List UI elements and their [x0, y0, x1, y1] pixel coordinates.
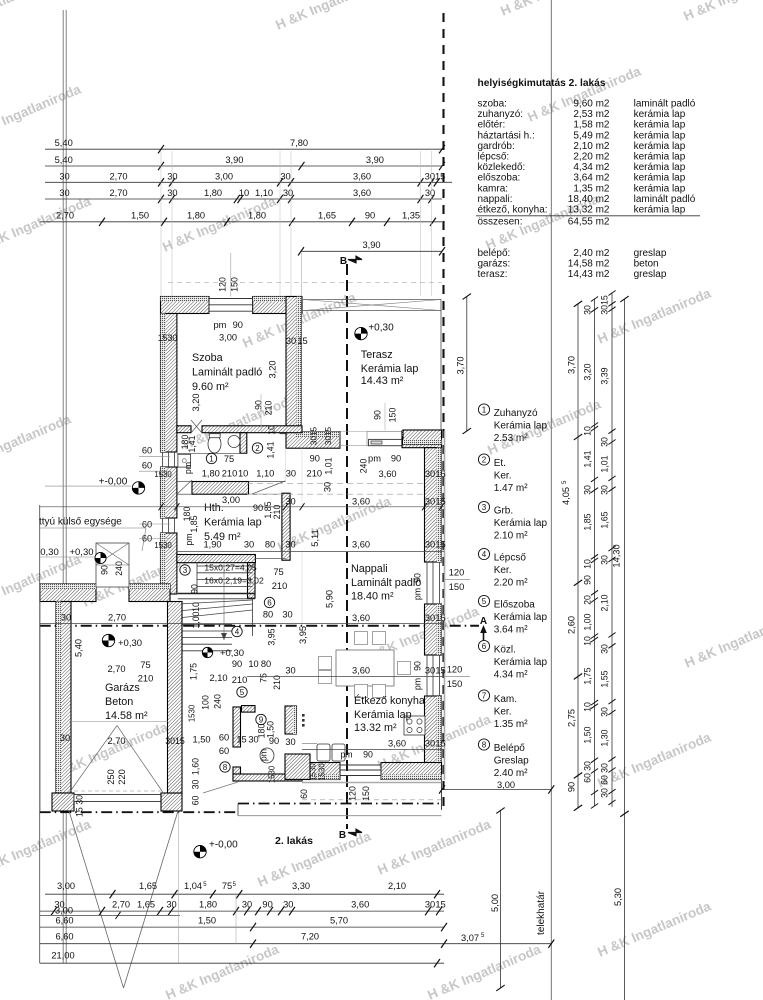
- svg-text:1,04: 1,04: [184, 881, 202, 891]
- svg-text:3,07: 3,07: [461, 933, 479, 943]
- svg-text:0,30: 0,30: [40, 547, 59, 558]
- svg-text:13.32 m²: 13.32 m²: [354, 722, 397, 734]
- section marker A arrow: [483, 628, 485, 641]
- svg-text:1,00: 1,00: [583, 613, 593, 630]
- bottom dash-dot house line: [40, 811, 238, 813]
- svg-text:1: 1: [482, 405, 487, 414]
- wall segment right of sliding door: [402, 431, 442, 448]
- garden wall e: [129, 584, 170, 602]
- svg-text:15: 15: [236, 735, 246, 745]
- right dim chain x612: [611, 293, 613, 807]
- svg-text:64,55 m2: 64,55 m2: [568, 217, 610, 228]
- svg-text:150: 150: [449, 582, 465, 592]
- garage east wall: [168, 602, 183, 794]
- dashed ceiling beam lines: [247, 482, 424, 484]
- svg-text:30: 30: [425, 900, 435, 910]
- svg-text:garázs:: garázs:: [478, 259, 511, 270]
- belepo door arc: [260, 748, 274, 763]
- svg-text:90: 90: [233, 320, 243, 330]
- svg-text:2.20 m²: 2.20 m²: [494, 577, 529, 588]
- svg-text:kerámia lap: kerámia lap: [634, 162, 686, 173]
- svg-text:30: 30: [285, 666, 295, 676]
- svg-text:210: 210: [272, 675, 282, 690]
- svg-text:telekhatár: telekhatár: [536, 890, 547, 935]
- konyha west wall upper: [285, 706, 296, 734]
- svg-text:30: 30: [283, 900, 293, 910]
- svg-text:belépő:: belépő:: [478, 248, 511, 259]
- staircase treads upper: [197, 565, 253, 567]
- svg-text:1,41: 1,41: [266, 441, 276, 458]
- svg-text:30: 30: [286, 469, 296, 479]
- svg-text:kerámia lap: kerámia lap: [634, 205, 686, 216]
- svg-text:1: 1: [209, 454, 214, 463]
- svg-text:pm: pm: [184, 533, 194, 545]
- svg-text:15: 15: [435, 469, 445, 479]
- svg-text:2,60: 2,60: [567, 616, 577, 634]
- svg-text:60: 60: [219, 746, 229, 756]
- svg-text:3,60: 3,60: [388, 739, 406, 749]
- svg-text:2,70: 2,70: [109, 188, 127, 198]
- svg-text:háztartási h.:: háztartási h.:: [478, 130, 535, 141]
- svg-text:4,05: 4,05: [561, 487, 571, 505]
- svg-text:kerámia lap: kerámia lap: [634, 173, 686, 184]
- telekhatar label: [536, 890, 547, 935]
- svg-text:6: 6: [267, 598, 272, 607]
- svg-text:Terasz: Terasz: [361, 349, 393, 361]
- svg-text:2.53 m²: 2.53 m²: [494, 433, 529, 444]
- top wall segment B: [253, 297, 302, 314]
- svg-text:1,75: 1,75: [189, 663, 199, 680]
- svg-text:Közl.: Közl.: [494, 645, 516, 656]
- svg-text:pm: pm: [413, 678, 423, 690]
- svg-text:3,60: 3,60: [378, 469, 396, 479]
- svg-text:30: 30: [600, 437, 610, 447]
- svg-text:Garázs: Garázs: [105, 682, 140, 694]
- svg-text:nappali:: nappali:: [478, 194, 513, 205]
- svg-text:kerámia lap: kerámia lap: [634, 120, 686, 131]
- svg-text:210: 210: [307, 469, 323, 479]
- svg-text:30: 30: [248, 735, 258, 745]
- svg-text:2.40 m²: 2.40 m²: [494, 768, 529, 779]
- svg-text:90: 90: [583, 575, 593, 585]
- svg-text:1,65: 1,65: [318, 211, 336, 221]
- svg-text:2,20 m2: 2,20 m2: [573, 152, 610, 163]
- svg-text:1530: 1530: [318, 763, 327, 781]
- svg-text:15: 15: [297, 336, 307, 346]
- svg-text:Kerámia lap: Kerámia lap: [354, 709, 412, 721]
- svg-text:60: 60: [142, 520, 152, 530]
- marker +0,30 left: [95, 552, 106, 563]
- svg-text:30: 30: [286, 336, 296, 346]
- terasz right edge: [440, 300, 442, 431]
- svg-text:240: 240: [359, 459, 369, 474]
- svg-text:Greslap: Greslap: [494, 755, 529, 766]
- svg-text:3,39: 3,39: [600, 367, 610, 384]
- svg-text:3,90: 3,90: [225, 155, 243, 165]
- svg-text:15: 15: [435, 613, 445, 623]
- svg-text:10: 10: [267, 425, 277, 435]
- svg-text:1,50: 1,50: [131, 211, 149, 221]
- svg-text:3,30: 3,30: [292, 881, 310, 891]
- svg-text:5,30: 5,30: [613, 888, 623, 906]
- svg-text:5,11: 5,11: [310, 529, 320, 546]
- svg-text:2,40 m2: 2,40 m2: [573, 248, 610, 259]
- svg-text:150: 150: [361, 786, 371, 801]
- svg-text:Laminált padló: Laminált padló: [192, 367, 262, 379]
- svg-text:1,50: 1,50: [583, 726, 593, 743]
- svg-text:2,70: 2,70: [107, 664, 125, 674]
- svg-text:1,41: 1,41: [187, 435, 197, 452]
- marker +0,30 stair: [202, 647, 212, 657]
- left wall middle: [161, 467, 177, 518]
- svg-text:80: 80: [263, 610, 273, 620]
- svg-text:60: 60: [600, 775, 610, 785]
- svg-text:Beton: Beton: [105, 696, 133, 708]
- belepo north stub: [242, 706, 256, 713]
- svg-text:3,00: 3,00: [55, 906, 73, 916]
- hth north wall: [192, 482, 249, 495]
- row 749 konyha: [302, 749, 444, 751]
- svg-text:terasz:: terasz:: [478, 269, 508, 280]
- svg-text:3015: 3015: [310, 426, 319, 445]
- svg-text:210: 210: [264, 401, 274, 416]
- svg-text:210: 210: [232, 675, 248, 685]
- svg-text:3,95: 3,95: [298, 626, 308, 644]
- stair east wall: [248, 563, 256, 599]
- svg-text:1,90: 1,90: [203, 540, 221, 550]
- svg-text:közlekedő:: közlekedő:: [478, 162, 526, 173]
- svg-text:2: 2: [482, 455, 487, 464]
- svg-text:1,55: 1,55: [600, 670, 610, 687]
- svg-text:Lépcső: Lépcső: [494, 553, 527, 564]
- svg-text:6,60: 6,60: [55, 916, 73, 926]
- svg-text:75: 75: [259, 673, 269, 683]
- svg-text:90: 90: [310, 454, 320, 464]
- svg-text:1,80: 1,80: [202, 469, 220, 479]
- svg-text:90: 90: [254, 400, 264, 410]
- svg-text:3.64 m²: 3.64 m²: [494, 624, 529, 635]
- svg-text:Előszoba: Előszoba: [494, 600, 536, 611]
- stair walk line: [223, 564, 225, 640]
- svg-text:3,00: 3,00: [57, 881, 75, 891]
- svg-text:90: 90: [365, 211, 375, 221]
- svg-text:150: 150: [388, 408, 398, 423]
- svg-text:1,50: 1,50: [192, 735, 210, 745]
- right wall window 2: [426, 655, 428, 696]
- svg-text:1,41: 1,41: [583, 450, 593, 467]
- counter edge: [302, 743, 317, 745]
- svg-text:greslap: greslap: [634, 248, 667, 259]
- svg-text:előtér:: előtér:: [478, 120, 506, 131]
- szoba right wall: [286, 297, 301, 433]
- garage west wall: [56, 602, 71, 794]
- svg-text:2. lakás: 2. lakás: [275, 835, 313, 847]
- svg-text:6: 6: [482, 642, 487, 651]
- svg-text:1,58 m2: 1,58 m2: [573, 120, 610, 131]
- svg-text:90: 90: [269, 736, 279, 746]
- svg-text:1,75: 1,75: [583, 667, 593, 684]
- svg-text:80: 80: [261, 659, 271, 669]
- row y552: [177, 551, 444, 553]
- svg-text:1530: 1530: [309, 763, 318, 781]
- svg-text:30: 30: [600, 485, 610, 495]
- svg-text:1,01: 1,01: [600, 455, 610, 472]
- svg-text:220: 220: [117, 769, 127, 785]
- svg-text:60: 60: [191, 796, 201, 806]
- svg-text:2,10: 2,10: [388, 881, 406, 891]
- svg-text:8: 8: [223, 763, 228, 772]
- roof overhang dashes bottom: [302, 799, 442, 801]
- svg-text:1.47 m²: 1.47 m²: [494, 483, 529, 494]
- svg-text:1530: 1530: [268, 765, 277, 783]
- vertical separator line x=551: [550, 0, 552, 1000]
- svg-text:30: 30: [600, 644, 610, 654]
- marker +-0,00 bottom: [194, 846, 206, 858]
- gray outer contour lines: [302, 782, 442, 784]
- svg-text:Kerámia lap: Kerámia lap: [204, 517, 262, 529]
- svg-text:90: 90: [373, 410, 383, 420]
- marker +-0,00 left: [132, 482, 144, 494]
- svg-text:5: 5: [482, 597, 487, 606]
- svg-text:30: 30: [167, 188, 177, 198]
- svg-text:5,40: 5,40: [74, 639, 84, 657]
- svg-text:7,80: 7,80: [290, 138, 308, 148]
- svg-text:laminált padló: laminált padló: [634, 99, 696, 110]
- svg-text:30: 30: [244, 540, 254, 550]
- svg-text:3,60: 3,60: [352, 613, 370, 623]
- svg-text:Szoba: Szoba: [192, 352, 223, 364]
- svg-text:3,00: 3,00: [215, 171, 233, 181]
- svg-text:16x0,2,19=3,02: 16x0,2,19=3,02: [204, 576, 264, 586]
- svg-text:90: 90: [413, 661, 423, 671]
- left wall lower: [161, 533, 177, 594]
- svg-text:10: 10: [583, 636, 593, 646]
- svg-text:10: 10: [583, 426, 593, 436]
- svg-text:18.40 m²: 18.40 m²: [351, 591, 394, 603]
- szoba top window: [209, 298, 253, 300]
- svg-text:90: 90: [391, 454, 401, 464]
- svg-text:1,65: 1,65: [139, 881, 157, 891]
- svg-text:30: 30: [285, 540, 295, 550]
- svg-text:5,00: 5,00: [490, 894, 500, 912]
- svg-text:5,90: 5,90: [325, 590, 335, 608]
- svg-text:10: 10: [583, 559, 593, 569]
- svg-text:Et.: Et.: [494, 458, 506, 469]
- svg-text:pm: pm: [340, 750, 352, 760]
- window dims 120/150 right wall: [444, 579, 470, 581]
- svg-text:30: 30: [191, 780, 201, 790]
- svg-text:2,10 m2: 2,10 m2: [573, 141, 610, 152]
- svg-text:kerámia lap: kerámia lap: [634, 183, 686, 194]
- svg-text:3015: 3015: [324, 426, 333, 445]
- svg-text:Grb.: Grb.: [494, 506, 513, 517]
- svg-text:240: 240: [114, 561, 124, 576]
- svg-text:75: 75: [224, 454, 234, 464]
- svg-text:Ker.: Ker.: [494, 565, 512, 576]
- row 676 konyha: [247, 676, 444, 678]
- svg-text:150: 150: [230, 277, 240, 292]
- svg-text:15x0,27=4,05: 15x0,27=4,05: [204, 563, 257, 573]
- marker +0,30 terasz: [355, 327, 367, 339]
- svg-text:15: 15: [435, 666, 445, 676]
- svg-text:Kerámia lap: Kerámia lap: [494, 657, 548, 668]
- svg-text:7: 7: [482, 691, 487, 700]
- svg-text:3,60: 3,60: [352, 666, 370, 676]
- svg-text:pm: pm: [213, 320, 226, 330]
- window header lines above top window: [230, 253, 232, 297]
- svg-text:30: 30: [583, 485, 593, 495]
- svg-text:1,85: 1,85: [583, 513, 593, 530]
- terasz sliding door: [367, 432, 402, 446]
- belepo se corner block: [285, 754, 310, 779]
- svg-text:Ker.: Ker.: [494, 706, 512, 717]
- svg-text:60: 60: [142, 461, 152, 471]
- left wall window 2: [162, 518, 164, 533]
- driveway V lines: [69, 811, 124, 988]
- svg-text:3,60: 3,60: [351, 900, 369, 910]
- svg-text:3,00: 3,00: [219, 333, 237, 343]
- hth east wall: [282, 493, 290, 560]
- roof overhang dashed line: [168, 282, 442, 284]
- svg-text:20: 20: [583, 595, 593, 605]
- svg-text:3,20: 3,20: [191, 393, 201, 411]
- row y623 garage top: [40, 623, 444, 625]
- dining table: [336, 650, 394, 686]
- svg-text:30: 30: [59, 188, 69, 198]
- svg-text:60: 60: [219, 733, 229, 743]
- svg-text:+0,30: +0,30: [368, 323, 394, 334]
- svg-text:1,30: 1,30: [600, 729, 610, 746]
- svg-text:14,43 m2: 14,43 m2: [568, 269, 610, 280]
- svg-text:pm: pm: [368, 454, 381, 464]
- svg-text:30: 30: [425, 613, 435, 623]
- svg-text:60: 60: [583, 773, 593, 783]
- kitchen sink: [317, 744, 330, 761]
- svg-text:1,80: 1,80: [204, 188, 222, 198]
- svg-text:3,90: 3,90: [366, 155, 384, 165]
- svg-text:30: 30: [280, 171, 290, 181]
- svg-text:6,60: 6,60: [55, 932, 73, 942]
- svg-text:75: 75: [222, 881, 232, 891]
- terasz slab top edge with X: [303, 299, 441, 301]
- section line B vertical: [346, 264, 348, 829]
- svg-text:2,75: 2,75: [567, 709, 577, 727]
- svg-text:250: 250: [106, 769, 116, 785]
- svg-text:2.10 m²: 2.10 m²: [494, 530, 529, 541]
- garage dims: [74, 639, 84, 657]
- svg-text:5,40: 5,40: [55, 138, 73, 148]
- svg-text:3,70: 3,70: [456, 356, 466, 374]
- svg-text:1.35 m²: 1.35 m²: [494, 719, 529, 730]
- svg-text:Kerámia lap: Kerámia lap: [494, 420, 548, 431]
- left thin line: [39, 505, 41, 963]
- svg-text:Kerámia lap: Kerámia lap: [494, 612, 548, 623]
- szoba south wall east part: [202, 426, 302, 433]
- svg-text:10: 10: [583, 702, 593, 712]
- svg-text:3,60: 3,60: [353, 171, 371, 181]
- svg-text:1,35 m2: 1,35 m2: [573, 183, 610, 194]
- svg-text:3: 3: [183, 566, 188, 575]
- svg-text:30: 30: [425, 666, 435, 676]
- svg-text:B: B: [339, 830, 346, 841]
- svg-text:15: 15: [435, 739, 445, 749]
- svg-text:3015: 3015: [425, 171, 446, 181]
- svg-text:2,70: 2,70: [107, 736, 125, 746]
- svg-text:+0,30: +0,30: [69, 547, 93, 558]
- svg-text:30: 30: [425, 188, 435, 198]
- left wall window 1: [162, 452, 164, 467]
- svg-text:90: 90: [232, 659, 242, 669]
- svg-text:helyiségkimutatás 2. lakás: helyiségkimutatás 2. lakás: [478, 78, 606, 89]
- svg-text:210: 210: [272, 505, 282, 520]
- svg-text:9,60 m2: 9,60 m2: [573, 99, 610, 110]
- svg-text:1,10: 1,10: [255, 188, 273, 198]
- konyha bottom window: [340, 764, 381, 766]
- svg-text:30: 30: [285, 737, 295, 747]
- svg-text:2,70: 2,70: [108, 613, 126, 623]
- svg-text:Kerámia lap: Kerámia lap: [494, 518, 548, 529]
- svg-text:1,65: 1,65: [137, 900, 155, 910]
- dots: [302, 714, 305, 717]
- svg-text:5,49 m2: 5,49 m2: [573, 130, 610, 141]
- svg-text:5,70: 5,70: [330, 916, 348, 926]
- top dimension chains: [45, 148, 442, 150]
- svg-text:A: A: [480, 616, 487, 627]
- svg-text:2,70: 2,70: [56, 211, 74, 221]
- svg-text:8: 8: [482, 740, 487, 749]
- svg-text:120: 120: [348, 786, 358, 801]
- svg-text:80: 80: [265, 540, 275, 550]
- svg-text:18,40 m2: 18,40 m2: [568, 194, 610, 205]
- svg-text:3,60: 3,60: [352, 497, 370, 507]
- door swing marks: [191, 420, 202, 433]
- section line A horizontal dash-dot: [40, 625, 479, 627]
- svg-text:90: 90: [190, 584, 200, 594]
- svg-text:120: 120: [447, 665, 463, 675]
- svg-text:9.60 m²: 9.60 m²: [192, 381, 229, 393]
- svg-text:15 30: 15 30: [75, 795, 85, 817]
- svg-text:3,95: 3,95: [267, 628, 277, 645]
- bottom wall left segment: [302, 763, 340, 780]
- svg-text:30: 30: [242, 900, 252, 910]
- svg-text:Ker.: Ker.: [494, 470, 512, 481]
- svg-text:30: 30: [167, 171, 177, 181]
- heat pump outdoor unit: [96, 543, 129, 587]
- right dim chain 3,70 terasz: [466, 297, 468, 432]
- chairs: [355, 632, 368, 645]
- right dim chain x594: [594, 299, 596, 806]
- dim 3,90 above terasz: [301, 250, 442, 252]
- svg-text:1,10: 1,10: [256, 469, 274, 479]
- svg-text:1,35: 1,35: [402, 211, 420, 221]
- right dim chain x624 14,30 / 5,30: [624, 299, 626, 1000]
- right dim chain x578: [577, 304, 579, 808]
- svg-text:90: 90: [262, 900, 272, 910]
- svg-text:210: 210: [222, 469, 238, 479]
- svg-text:4: 4: [482, 550, 487, 559]
- svg-text:30: 30: [425, 540, 435, 550]
- svg-text:1,65: 1,65: [600, 511, 610, 528]
- south band left of sliding door: [286, 432, 340, 448]
- svg-text:előszoba:: előszoba:: [478, 173, 521, 184]
- svg-text:90: 90: [413, 573, 423, 583]
- svg-text:összesen:: összesen:: [478, 217, 523, 228]
- svg-text:30: 30: [60, 733, 70, 743]
- svg-text:21,00: 21,00: [51, 951, 74, 961]
- svg-text:30: 30: [283, 188, 293, 198]
- svg-text:pm: pm: [413, 588, 423, 600]
- dim 5,00 vertical: [500, 811, 502, 989]
